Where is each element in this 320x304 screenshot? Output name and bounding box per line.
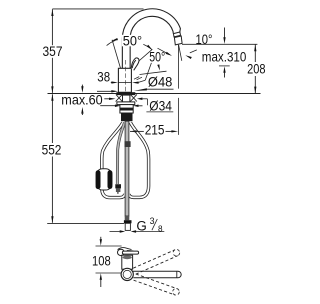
50deg swivel dim leg right (126, 49, 153, 72)
svg-text:108: 108 (92, 254, 111, 269)
plan view: lever pivot blob (118, 249, 125, 255)
lever open position line (140, 71, 167, 74)
svg-text:G: G (136, 218, 146, 233)
pull-out hose (125, 121, 129, 216)
deck top line (48, 93, 261, 95)
svg-text:max.60: max.60 (61, 92, 103, 107)
mounting nut (120, 105, 133, 113)
spout arc inner (130, 16, 173, 38)
spray axis tilted 10deg line (179, 45, 182, 61)
spray head joint band (173, 32, 180, 37)
svg-text:3: 3 (150, 216, 155, 226)
short middle hose (117, 123, 124, 185)
body centerline dashes (124, 60, 126, 121)
Ø48 left arrow (97, 90, 114, 92)
svg-text:215: 215 (145, 122, 165, 137)
mounting wedge right (130, 94, 137, 101)
215 dimension (130, 130, 137, 132)
hose end dark section (125, 216, 130, 220)
108 dimension arrows (100, 237, 102, 239)
Ø48 leader arrow (long, angled) (134, 88, 147, 91)
10deg leader left arrow (158, 48, 170, 54)
deck bottom line right + arrow (133, 105, 139, 108)
spout arc outer (122, 9, 180, 39)
357 dimension line (51, 9, 53, 45)
svg-text:Ø34: Ø34 (149, 98, 172, 113)
svg-text:Ø48: Ø48 (148, 75, 173, 90)
hose weight (96, 169, 112, 190)
208 dimension line (254, 45, 256, 63)
max.310 upper arrow (224, 28, 226, 39)
10deg leader right arrow (190, 50, 197, 53)
top reference line (spout top level) (52, 8, 143, 10)
shank flange (117, 102, 135, 105)
50deg swivel dim leg left (112, 40, 121, 71)
svg-text:max.310: max.310 (202, 50, 247, 65)
spray axis vertical extension (215 ext) (177, 45, 179, 89)
spout riser pipe (121, 47, 123, 69)
left supply hose (102, 123, 125, 198)
10deg reference line (182, 43, 257, 45)
max.60 dimension arrows (81, 85, 83, 87)
plan view: lever wiggle details (118, 248, 132, 250)
max.310 lower tick + arrow (219, 65, 230, 67)
svg-text:8: 8 (158, 224, 163, 233)
50deg lever leader to body (145, 63, 151, 80)
svg-text:38: 38 (97, 69, 110, 84)
max.60 leader arrow (104, 98, 110, 100)
plan view: spout tube (133, 271, 181, 278)
outlet nipple G3/8 (125, 223, 130, 230)
552 dimension line (51, 94, 53, 143)
plan view: body (122, 255, 133, 269)
hose clip (125, 141, 131, 147)
svg-text:50°: 50° (123, 34, 142, 49)
lever handle (131, 58, 139, 70)
50deg swivel dim arc left segment + arrow (107, 40, 116, 45)
bottom reference line (hose end level) (47, 222, 124, 224)
deck bottom line left + arrow (100, 105, 116, 107)
38 leader arrow (111, 82, 115, 84)
50deg swivel dim arc right segment + arrow (143, 44, 152, 49)
plan view: 108 bottom reference line (96, 272, 121, 274)
svg-text:357: 357 (43, 44, 63, 59)
middle hose connector (115, 184, 121, 188)
svg-text:552: 552 (42, 143, 62, 158)
plan view: 108 top reference line (96, 245, 122, 247)
G3/8 arrows (110, 231, 120, 233)
plan view: lever bar (122, 251, 138, 254)
Ø48 underline (147, 88, 174, 90)
plan view: swivel range dashed upper (133, 249, 180, 295)
base flange (116, 92, 135, 95)
lower shank guide (121, 113, 133, 121)
plan view: swivel range dashed lower (134, 280, 175, 295)
plan view: swivel ring (121, 268, 133, 280)
Ø34 leader arrow at wedge (137, 98, 143, 101)
svg-text:50°: 50° (149, 49, 165, 64)
mounting wedge left (116, 94, 123, 101)
spray head (174, 36, 182, 45)
50deg swivel label (on white) (122, 35, 143, 46)
50deg lever leader down arrow (157, 64, 160, 70)
38 dimension line through body (119, 82, 132, 84)
faucet body (118, 68, 131, 92)
hose end connector (124, 220, 132, 223)
Ø34 underline (146, 111, 173, 113)
svg-text:208: 208 (247, 62, 265, 77)
right supply hose (129, 123, 149, 198)
mounting shank (123, 95, 130, 102)
